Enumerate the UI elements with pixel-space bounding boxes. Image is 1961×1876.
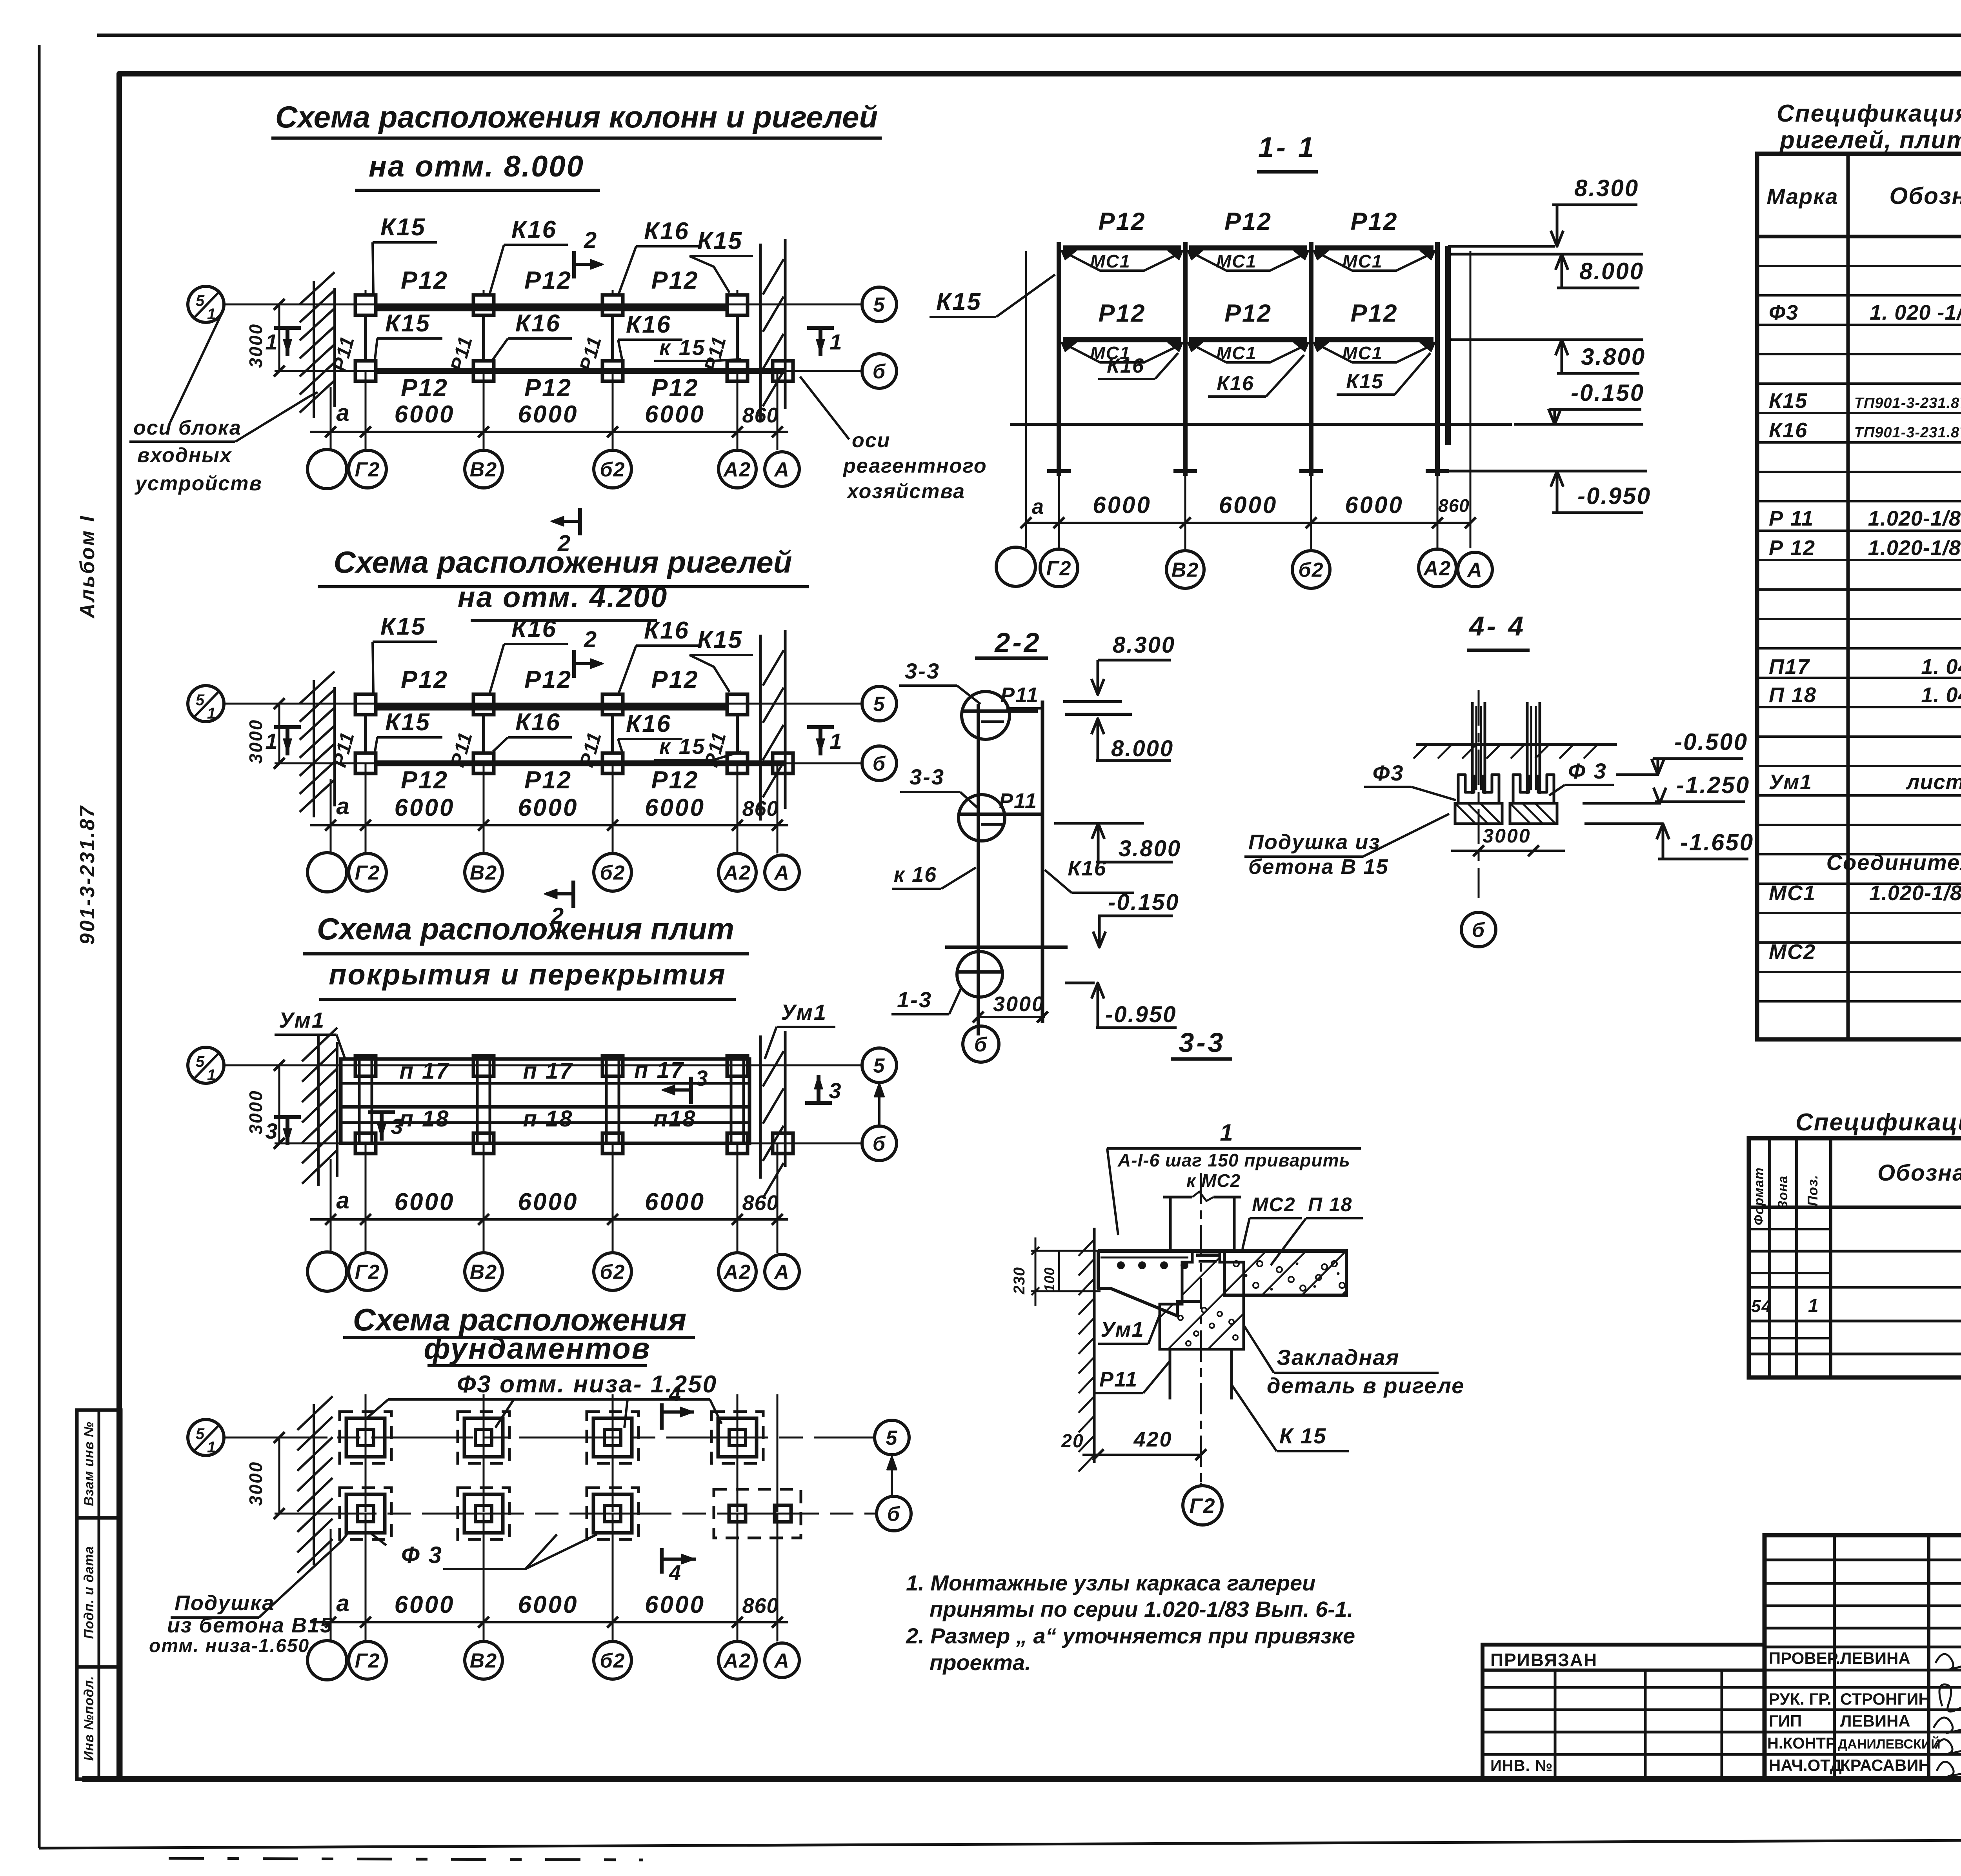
foundation bottom row x=1562 [587,1488,639,1539]
svg-text:СТРОНГИН: СТРОНГИН [1840,1690,1930,1708]
svg-text:А2: А2 [723,459,751,481]
signatures (scribbles) [1934,1654,1961,1776]
column axis line [483,290,485,294]
svg-text:Инв №подл.: Инв №подл. [82,1676,96,1761]
svg-text:2-2: 2-2 [994,627,1041,658]
joint circle mid 2-2 [959,795,1005,841]
column marker bottom x=1880 [727,753,748,773]
svg-text:К15: К15 [385,709,431,736]
svg-text:В2: В2 [470,459,497,481]
dim 230 100 left [1031,1250,1098,1252]
svg-text:МС2: МС2 [1769,940,1816,964]
svg-text:б2: б2 [600,1650,625,1672]
column axis extensions to bubbles [365,1143,367,1253]
slab inner horizontal lines [341,1082,749,1085]
svg-text:К16: К16 [644,218,689,245]
svg-text:б: б [887,1503,900,1526]
svg-text:Г2: Г2 [1046,557,1072,580]
svg-text:П17: П17 [1769,655,1810,679]
svg-text:а: а [336,1187,350,1214]
svg-text:Р12: Р12 [524,766,572,794]
svg-text:Р12: Р12 [401,374,448,402]
ground line 4-4 with hatching [1416,743,1617,746]
svg-text:5: 5 [873,294,886,317]
svg-text:4: 4 [669,1382,682,1406]
section mark 1 [819,727,822,755]
svg-text:МС1: МС1 [1342,343,1383,363]
svg-text:1. 020 -1/83. 11 1.00: 1. 020 -1/83. 11 1.00 [1870,301,1961,324]
svg-text:3.800: 3.800 [1581,344,1646,370]
grid bubble 6 [862,1126,897,1161]
column marker bottom x=1562 [602,361,623,381]
foundation top row x=932 [340,1412,391,1463]
svg-text:ЛЕВИНА: ЛЕВИНА [1840,1712,1910,1730]
svg-text:-1.650: -1.650 [1680,829,1754,855]
svg-text:входных: входных [137,444,232,467]
svg-text:В2: В2 [470,862,497,884]
leader from A axis [800,377,849,439]
svg-text:Спецификация элементов монол: Спецификация элементов монолитных участк… [1795,1109,1961,1136]
left wall hatched foundation [313,1404,315,1565]
foundation bottom row x=1233 [458,1488,509,1539]
svg-text:А: А [773,1261,790,1284]
svg-text:К16: К16 [1107,355,1144,377]
column marker bottom x=1233 [473,361,494,381]
svg-text:К15: К15 [385,310,431,337]
svg-text:К16: К16 [626,710,671,737]
grid bubbles bottom row [307,853,347,892]
spec table 2 row lines [1749,1250,1961,1253]
svg-text:ЛЕВИНА: ЛЕВИНА [1840,1649,1910,1667]
column marker bottom x=1233 [473,753,494,773]
grid axis row 5/1 [224,304,862,306]
svg-text:1: 1 [265,729,278,753]
svg-text:проекта.: проекта. [930,1650,1031,1675]
grid axis row 6 [275,1143,862,1145]
outer sheet edge top [97,34,1961,37]
svg-text:6000: 6000 [518,1591,578,1618]
beam P12 top row [377,705,727,711]
svg-text:-0.500: -0.500 [1674,729,1748,755]
svg-text:6000: 6000 [395,401,455,428]
section mark 1 [819,328,822,356]
svg-text:Р12: Р12 [1350,300,1398,327]
joint circle top 2-2 [962,691,1010,739]
svg-text:из бетона В15: из бетона В15 [167,1614,333,1637]
svg-text:Ум1: Ум1 [1101,1318,1144,1341]
svg-text:3-3: 3-3 [905,659,940,683]
beam P11 (vertical) [611,715,614,753]
svg-text:54: 54 [1751,1297,1772,1316]
svg-text:6000: 6000 [1219,492,1277,518]
grid bubble 5 [875,1420,909,1455]
svg-text:п 17: п 17 [634,1057,684,1083]
svg-text:3000: 3000 [993,992,1045,1016]
column marker top x=1880 [727,295,748,315]
left wall hatched [313,680,315,817]
svg-text:К15: К15 [380,214,426,241]
svg-text:Ф3: Ф3 [1769,301,1799,324]
beam P12 bottom row [377,368,785,374]
svg-text:Схема расположения ригелей: Схема расположения ригелей [334,545,792,579]
right wall hatched [759,635,762,821]
svg-text:К16: К16 [1068,857,1106,880]
svg-text:6000: 6000 [518,1188,578,1215]
svg-text:Р12: Р12 [401,267,448,294]
beam P11 (vertical) [736,715,739,753]
svg-text:ИНВ. №: ИНВ. № [1490,1757,1553,1774]
grid bubble 6 [862,354,897,388]
sidebar stamp boxes [77,1410,121,1779]
svg-text:1.020-1/83 3-1 17-01: 1.020-1/83 3-1 17-01 [1868,507,1961,530]
svg-text:3: 3 [695,1066,708,1090]
svg-text:к 15: к 15 [659,734,706,759]
svg-text:а: а [336,400,350,426]
svg-text:Р12: Р12 [524,267,572,294]
grid axis row 5/1 [224,1064,862,1066]
svg-text:МС1: МС1 [1342,251,1383,271]
svg-text:оси: оси [852,429,890,452]
svg-text:на отм. 8.000: на отм. 8.000 [369,150,584,183]
grid bubble 5 [862,1048,897,1083]
svg-text:П 18: П 18 [1769,683,1817,707]
foundation top row x=1233 [458,1412,509,1463]
foundation top row x=1880 [711,1412,763,1463]
MC1 supports upper [1065,253,1180,271]
node bracket line [1107,1147,1361,1150]
right wall hatched [759,1035,762,1179]
grid axis row 5/1 [224,703,862,705]
svg-text:К16: К16 [515,310,561,337]
joint circle bottom 2-2 [957,952,1002,997]
svg-text:860: 860 [742,797,779,821]
svg-text:А2: А2 [723,1650,751,1672]
outer sheet edge left [38,45,41,1848]
svg-text:б2: б2 [600,459,625,481]
column markers plan3 [355,1056,376,1076]
svg-text:отм. низа-1.650: отм. низа-1.650 [149,1636,309,1656]
svg-text:Зона: Зона [1775,1175,1790,1209]
axis line left of G [1025,251,1027,548]
svg-text:А: А [773,459,790,481]
svg-text:К16: К16 [1217,372,1254,395]
svg-text:1: 1 [207,1439,216,1456]
svg-text:К16: К16 [511,216,557,243]
section mark 2 [578,508,582,535]
svg-text:лист КЖ 54: лист КЖ 54 [1905,770,1961,794]
svg-text:5: 5 [873,693,886,716]
outer sheet edge bottom [39,1838,1961,1848]
svg-text:к 15: к 15 [659,335,706,360]
svg-text:Р11: Р11 [999,789,1037,813]
svg-text:5: 5 [886,1427,898,1450]
slab vertical dividers at columns [358,1059,361,1143]
bubble б 4-4 [1461,912,1496,947]
svg-text:Р12: Р12 [1350,208,1398,235]
grid bubble 5/1 [188,1047,224,1083]
svg-text:Взам инв №: Взам инв № [82,1421,96,1506]
svg-text:Ф3: Ф3 [1373,761,1404,785]
speckles in right slab [1233,1261,1239,1266]
svg-text:б2: б2 [1298,559,1324,582]
privyazan table [1483,1645,1765,1780]
grid axis row 6 [275,370,862,372]
svg-text:20: 20 [1061,1431,1084,1452]
svg-text:Р12: Р12 [401,766,448,794]
svg-text:К15: К15 [697,626,743,653]
dim line section 1-1 [1026,522,1470,524]
svg-text:8.300: 8.300 [1113,632,1175,658]
arrow from 6 to 5 [878,1086,880,1126]
svg-text:б: б [873,1133,886,1155]
svg-text:Схема расположения плит: Схема расположения плит [317,912,734,946]
svg-text:8.300: 8.300 [1574,175,1639,201]
column line right 2-2 (K16) [1041,701,1044,1023]
vertical dim 3000 [278,304,280,371]
svg-text:МС2: МС2 [1252,1194,1296,1215]
svg-text:Р12: Р12 [651,374,699,402]
svg-text:3.800: 3.800 [1119,836,1181,861]
beam P12 top row [377,306,727,311]
svg-text:В2: В2 [1172,559,1199,582]
svg-text:б: б [974,1034,988,1056]
svg-text:1. 041.1-2: 1. 041.1-2 [1921,683,1961,707]
svg-text:1.020-1/83 3-1 14-01: 1.020-1/83 3-1 14-01 [1868,536,1961,560]
column marker at A bottom [773,753,793,773]
svg-text:ригелей, плит покрытия и пе: ригелей, плит покрытия и перекрытия, фун… [1779,127,1961,154]
svg-text:хозяйства: хозяйства [846,480,965,503]
svg-text:Р12: Р12 [524,374,572,402]
svg-text:К16: К16 [515,709,561,736]
section 1-1 bubbles [996,547,1035,586]
frame bottom thick [82,1776,1961,1782]
section mark 2 [572,251,576,278]
svg-text:1.020-1/83 Вып. 7-1: 1.020-1/83 Вып. 7-1 [1869,881,1961,905]
svg-text:П 18: П 18 [1308,1194,1352,1215]
upper beams P12 [1063,246,1181,251]
right wall column [1445,246,1451,445]
svg-text:покрытия и перекрытия: покрытия и перекрытия [329,958,726,991]
svg-text:Ум1: Ум1 [279,1008,325,1032]
svg-text:Р12: Р12 [651,267,699,294]
svg-text:бетона В 15: бетона В 15 [1248,855,1388,879]
svg-text:А2: А2 [723,1261,751,1284]
svg-text:5: 5 [873,1055,886,1077]
svg-text:-1.250: -1.250 [1676,772,1750,798]
grid bubble 5 [862,686,897,721]
svg-text:860: 860 [742,404,779,427]
svg-text:к 16: к 16 [894,863,937,886]
svg-text:-0.950: -0.950 [1105,1002,1177,1027]
svg-text:Альбом I: Альбом I [76,515,99,619]
column marker top x=1562 [602,295,623,315]
svg-text:б: б [873,753,886,775]
svg-text:Р12: Р12 [651,666,699,693]
axis line 4-4 [1478,690,1480,898]
vertical dim 3000 [278,704,280,763]
svg-text:860: 860 [742,1594,779,1618]
svg-text:Подп. и дата: Подп. и дата [82,1546,96,1639]
section mark 2 [571,881,575,908]
svg-text:В2: В2 [470,1650,497,1672]
beam P11 (vertical) [364,315,367,361]
svg-text:А2: А2 [723,862,751,884]
leader to wall [235,392,318,442]
svg-text:Ум1: Ум1 [1769,770,1812,794]
rebar dots under top line [1117,1261,1125,1269]
svg-text:1: 1 [207,1066,216,1084]
right wall hatched [759,244,762,420]
foundation glasses 4-4 [1458,775,1474,803]
svg-text:6000: 6000 [645,1591,705,1618]
svg-text:МС1: МС1 [1216,251,1257,271]
axis dashdot detail [1200,1173,1202,1483]
column marker bottom x=1562 [602,753,623,773]
arrow 6 to 5 [891,1458,893,1496]
level -0.950 2-2 [1065,982,1095,984]
svg-text:ТП901-3-231.87КЖН. 01.0.00-07: ТП901-3-231.87КЖН. 01.0.00-07 [1854,395,1961,411]
svg-text:МС1: МС1 [1769,881,1816,905]
svg-text:К15: К15 [1769,389,1808,413]
svg-text:8.000: 8.000 [1579,258,1644,284]
lower beams P12 [1063,337,1181,342]
svg-text:ДАНИЛЕВСКИЙ: ДАНИЛЕВСКИЙ [1838,1736,1941,1752]
grid bubble 6 [862,746,897,781]
svg-text:860: 860 [1438,495,1470,516]
svg-text:1. Монтажные узлы каркаса г: 1. Монтажные узлы каркаса галереи [906,1570,1315,1595]
svg-text:Р12: Р12 [651,766,699,794]
svg-text:901-3-231.87: 901-3-231.87 [76,804,99,944]
svg-text:Р12: Р12 [524,666,572,693]
svg-text:Р12: Р12 [1098,300,1146,327]
svg-text:3000: 3000 [246,1461,266,1506]
spec table 2 frame [1749,1138,1961,1377]
svg-text:Р12: Р12 [1224,300,1272,327]
svg-text:К16: К16 [1769,419,1808,442]
svg-text:1: 1 [1808,1296,1819,1316]
svg-text:НАЧ.ОТД: НАЧ.ОТД [1769,1756,1842,1774]
svg-text:К15: К15 [1346,370,1384,393]
bubble Г2 detail [1200,1483,1202,1487]
column marker top x=1233 [473,295,494,315]
svg-text:6000: 6000 [1093,492,1151,518]
foundation bottom A2-A dashed rectangle [714,1489,801,1538]
svg-text:3: 3 [391,1114,404,1139]
svg-text:К16: К16 [626,311,671,338]
column marker at A bottom [773,361,793,381]
svg-text:6000: 6000 [518,401,578,428]
column axes vertical foundation [365,1394,367,1641]
svg-text:Р12: Р12 [1224,208,1272,235]
svg-text:К 15: К 15 [1279,1423,1326,1448]
grid bubbles bottom row [307,1641,347,1680]
column base ticks [1047,469,1071,473]
svg-text:К15: К15 [380,613,426,640]
svg-text:860: 860 [742,1191,779,1215]
svg-text:Спецификация к схемам распо: Спецификация к схемам расположения колон… [1777,100,1961,127]
column axis line [365,290,367,294]
column marker bottom x=932 [355,361,376,381]
svg-text:ПРИВЯЗАН: ПРИВЯЗАН [1490,1650,1597,1670]
svg-text:б: б [873,360,886,383]
svg-text:-0.150: -0.150 [1108,890,1179,915]
svg-text:Г2: Г2 [355,1650,380,1672]
grid bubbles bottom row [307,1252,347,1291]
svg-text:Ф 3: Ф 3 [1568,759,1607,783]
beam haunch outline (P11) [1098,1251,1200,1316]
svg-text:6000: 6000 [645,401,705,428]
slab field outline [341,1059,749,1143]
foundation top row x=1562 [587,1412,639,1463]
vertical dim 3000 [278,1437,280,1514]
svg-text:к МС2: к МС2 [1186,1170,1241,1191]
central monolith Um1 hatched [1160,1251,1244,1349]
svg-text:Поз.: Поз. [1805,1175,1821,1206]
section 3 mark right [817,1075,820,1103]
svg-text:фундаментов: фундаментов [424,1332,651,1365]
svg-text:а: а [1032,495,1044,519]
svg-text:1: 1 [830,329,842,354]
section mark 3 [286,1117,289,1145]
svg-text:2. Размер „ а“ уточняется пр: 2. Размер „ а“ уточняется при привязке [906,1623,1355,1648]
section mark 1 [286,328,289,356]
svg-text:п 18: п 18 [523,1106,573,1132]
column marker bottom x=1880 [727,361,748,381]
section mark 2 [572,650,576,678]
beam P11 (vertical) [364,715,367,753]
svg-text:Закладная: Закладная [1277,1345,1399,1370]
svg-text:1: 1 [265,329,278,354]
svg-text:3-3: 3-3 [910,764,945,789]
svg-text:б: б [1472,919,1485,942]
svg-text:устройств: устройств [134,472,262,495]
svg-text:Подушка: Подушка [175,1591,275,1615]
column above (detail) [1169,1197,1172,1250]
svg-text:ГИП: ГИП [1769,1712,1802,1730]
spec table 1 frame [1757,154,1961,1039]
svg-text:КРАСАВИН: КРАСАВИН [1840,1756,1930,1774]
svg-text:Н.КОНТР: Н.КОНТР [1767,1735,1836,1752]
svg-text:1: 1 [207,705,216,722]
column axis line [612,290,614,294]
svg-text:деталь в ригеле: деталь в ригеле [1267,1373,1464,1398]
column axis extensions to bubbles [365,1514,367,1641]
svg-text:А2: А2 [1423,557,1451,580]
svg-text:а: а [336,1590,350,1616]
column below detail [1169,1349,1172,1399]
svg-text:-0.950: -0.950 [1577,483,1651,509]
column axis extensions to bubbles [365,763,367,853]
ground line 2-2 [945,946,1068,949]
svg-text:Марка: Марка [1767,184,1839,209]
svg-text:А: А [1466,559,1483,582]
svg-text:Обозначение: Обозначение [1889,183,1961,209]
column marker top x=1233 [473,694,494,715]
svg-text:Г2: Г2 [355,862,380,884]
svg-text:А: А [773,1650,790,1672]
svg-text:1-3: 1-3 [897,987,932,1012]
svg-text:3: 3 [265,1119,278,1143]
svg-text:-0.150: -0.150 [1571,380,1644,406]
columns of section 1-1 [1057,242,1061,476]
column marker top x=1562 [602,694,623,715]
level 3.800 2-2 [1054,822,1144,825]
svg-text:на отм. 4.200: на отм. 4.200 [458,581,668,613]
svg-text:3000: 3000 [1483,825,1531,847]
beam level double lines near 8.300 [1063,700,1122,703]
section mark 3 [380,1112,384,1141]
ground line [1010,423,1512,426]
